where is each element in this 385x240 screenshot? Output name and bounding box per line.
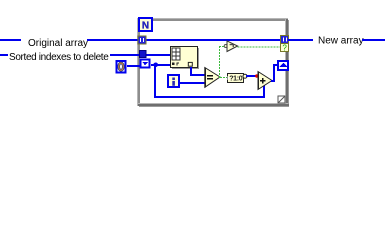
Not node bbox=[224, 41, 237, 52]
constant 0 bbox=[117, 61, 126, 73]
wire: New array out of tunnel bbox=[288, 39, 313, 41]
Index Array function icon bbox=[171, 47, 200, 70]
wire: boolean to Not input (green dashed) bbox=[219, 46, 224, 48]
wire: tunnel to Index Array input bbox=[146, 54, 171, 56]
svg-text:?: ? bbox=[282, 44, 287, 53]
select node ?1:0 bbox=[228, 74, 248, 83]
wire: array inside loop (tunnel to output tunnel) bbox=[146, 39, 281, 41]
iteration terminal i bbox=[168, 75, 179, 87]
resize handle (bottom-right corner of loop) bbox=[278, 96, 285, 103]
wire: i terminal to equals node bbox=[179, 82, 205, 84]
wire: Sorted indexes label to loop tunnel bbox=[110, 54, 139, 56]
equals node bbox=[204, 68, 220, 88]
wire: shift register to Index Array index input bbox=[151, 64, 170, 66]
wire: bottom feedback run bbox=[154, 96, 265, 98]
loop count terminal N bbox=[139, 18, 152, 32]
wire: Original array label to loop tunnel bbox=[87, 39, 138, 41]
tunnel: Original array input (blue array tunnel) bbox=[138, 36, 146, 44]
svg-text:New array: New array bbox=[318, 36, 364, 47]
junction dot bbox=[153, 63, 158, 68]
wire: add output bbox=[271, 80, 275, 82]
wire: bottom run up to add node bbox=[263, 85, 265, 97]
svg-text:?1:0: ?1:0 bbox=[229, 76, 243, 83]
shift register left terminal (down arrow) bbox=[141, 60, 150, 68]
wire: boolean branch up (green dashed) bbox=[219, 47, 221, 79]
wire: equals output to select (green dashed) bbox=[220, 77, 228, 79]
wire: select to add node bbox=[246, 75, 258, 77]
wire: New array lead-out bbox=[362, 39, 385, 41]
wire: to right shift register bbox=[275, 64, 278, 66]
wire: Not output to conditional tunnel (green dashed) bbox=[238, 46, 281, 48]
svg-text:N: N bbox=[142, 21, 149, 32]
tunnel: Sorted indexes input (solid blue tunnel) bbox=[140, 51, 147, 58]
wire: add output up bbox=[273, 64, 275, 82]
add node bbox=[258, 72, 273, 90]
coercion dot (red) bbox=[255, 74, 258, 77]
wire: Index Array output to equals node bbox=[190, 74, 205, 76]
wire: junction down to bottom run bbox=[154, 64, 156, 97]
wire: Sorted indexes lead-in (left of label) bbox=[0, 54, 8, 56]
wire: Index Array output down bbox=[190, 67, 192, 76]
conditional indexing tunnel (array out + ? cell) bbox=[281, 36, 289, 53]
wire: 0 constant to shift register bbox=[127, 65, 140, 67]
shift register right terminal (up arrow) bbox=[278, 61, 288, 70]
svg-text:Original array: Original array bbox=[28, 38, 88, 49]
for-loop frame (grey 3D border with drop shadow) bbox=[137, 18, 289, 107]
svg-text:Sorted indexes to delete: Sorted indexes to delete bbox=[9, 52, 109, 63]
wire: Original array lead-in (left of label) bbox=[0, 39, 21, 41]
